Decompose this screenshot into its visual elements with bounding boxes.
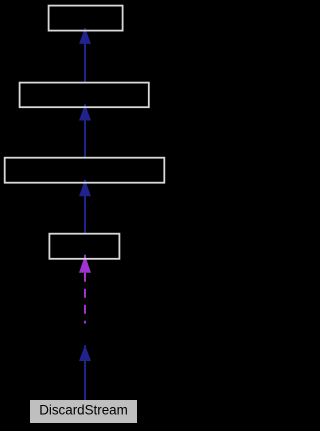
node: level2 class box — [20, 83, 149, 108]
inheritance arrow: DiscardStream -> template instance node — [79, 345, 91, 400]
svg-text:DiscardStream: DiscardStream — [39, 403, 128, 418]
node: DiscardStream (current class, filled) — [30, 400, 137, 423]
inheritance arrow: level4 class -> level3 class — [79, 180, 91, 234]
node: level1 base class box — [49, 6, 123, 31]
template relation arrow (dashed) -> level4 class box — [79, 255, 91, 324]
node: level3 class box — [5, 158, 165, 183]
inheritance arrow: level2 class -> level1 base class — [79, 28, 91, 83]
inheritance arrow: level3 class -> level2 class — [79, 104, 91, 158]
node: level4 class box — [49, 234, 119, 259]
